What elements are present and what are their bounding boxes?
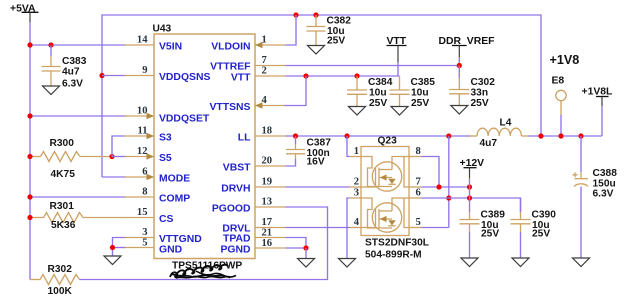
pin 6 MODE input arrow (125, 167, 191, 185)
svg-text:25V: 25V (532, 229, 550, 240)
ground below C385 (391, 107, 408, 116)
svg-text:C384: C384 (368, 77, 393, 88)
svg-text:L4: L4 (500, 118, 512, 129)
Q23 bottom FET internals (361, 198, 409, 232)
svg-text:VLDOIN: VLDOIN (211, 42, 250, 53)
wire pin10 VDDQSET from +5VA rail (30, 115, 126, 117)
svg-text:4K75: 4K75 (51, 169, 76, 180)
junction Q23 pin1 drop on LL (344, 133, 349, 138)
capacitor C384 10u 25V (347, 76, 393, 109)
svg-text:25V: 25V (411, 98, 429, 109)
wire S3 riser (112, 136, 126, 157)
svg-text:C383: C383 (62, 56, 87, 67)
Q23 pin 6 stub (409, 188, 422, 199)
wire LL net / +1V8 output (286, 135, 471, 137)
pin 13 PGOOD (212, 197, 286, 215)
svg-text:19: 19 (262, 177, 273, 188)
resistor R300 4K75 (30, 138, 112, 180)
resistor R301 5K36 (30, 201, 126, 231)
svg-text:5K36: 5K36 (51, 220, 76, 231)
junction +5VA/pin14 (27, 42, 32, 47)
pin 12 S5 input arrow (125, 146, 172, 164)
wire Q23 pin5 riser (422, 227, 449, 229)
svg-text:10u: 10u (369, 88, 387, 99)
node +12V power label (460, 158, 485, 212)
svg-text:100K: 100K (48, 286, 73, 297)
capacitor C302 33n 25V (449, 66, 495, 110)
resistor R302 100K (30, 264, 80, 297)
svg-text:10: 10 (137, 106, 148, 117)
ground U43 analog (104, 256, 121, 265)
pin 20 VBST (223, 156, 286, 174)
wire LL to Q23 pin1 (347, 136, 350, 157)
svg-text:6.3V: 6.3V (593, 189, 614, 200)
junction top rail drop at output (538, 133, 543, 138)
wire MODE from rail vertical (102, 176, 126, 178)
svg-text:C390: C390 (532, 210, 557, 221)
svg-text:C302: C302 (471, 77, 496, 88)
pin 2 VTT (231, 66, 286, 84)
junction E8 on output (558, 133, 563, 138)
ground PGND (298, 259, 315, 268)
svg-text:4: 4 (354, 217, 360, 228)
wire rail to pin9 (102, 75, 126, 77)
wire Q23 pin3 source to ground (347, 198, 350, 258)
svg-text:C389: C389 (481, 210, 506, 221)
wire Q23 pin7 to +12V (422, 186, 470, 188)
Q23 pin 3 stub (350, 188, 362, 199)
wire DRVH to Q23 gate pin2 (286, 186, 350, 188)
pin 18 LL (238, 126, 286, 144)
svg-text:13: 13 (262, 197, 273, 208)
svg-text:R300: R300 (50, 138, 75, 149)
svg-text:7: 7 (262, 55, 268, 66)
svg-text:R302: R302 (48, 264, 73, 275)
svg-text:VBST: VBST (223, 163, 251, 174)
svg-text:6: 6 (416, 188, 421, 199)
ground below C384 (349, 107, 366, 116)
svg-text:5: 5 (142, 238, 147, 249)
junction pin8 drop (436, 184, 441, 189)
IC U43 TPS51116PWP body (153, 24, 256, 272)
ground below C390 (512, 258, 529, 267)
svg-text:C385: C385 (411, 77, 436, 88)
wire VTT net pin2 (286, 75, 400, 77)
wire top rail to pin1 VLDOIN (285, 15, 297, 45)
svg-text:9: 9 (142, 65, 147, 76)
Q23 pin 7 stub (409, 177, 422, 188)
ground below C389 (461, 258, 478, 267)
svg-text:4u7: 4u7 (62, 67, 80, 78)
pin 4 VTTSNS input arrow (210, 95, 286, 113)
capacitor C390 10u 25V (511, 198, 557, 258)
junction +12V on pin7 row (467, 184, 472, 189)
svg-text:VDDQSNS: VDDQSNS (159, 72, 210, 83)
junction R301/+5VA (27, 215, 32, 220)
junction R300/S5/S3 (109, 154, 114, 159)
svg-text:TPAD: TPAD (223, 234, 251, 245)
wire Q23 pin6 row to C390 (422, 198, 521, 212)
svg-text:14: 14 (137, 35, 148, 46)
svg-text:2: 2 (354, 177, 359, 188)
capacitor C388 150u 6.3V polarized (573, 136, 618, 258)
svg-text:C388: C388 (593, 168, 618, 179)
svg-text:S3: S3 (159, 133, 172, 144)
pin 15 CS (125, 207, 174, 225)
ground below C302 (451, 106, 468, 115)
svg-text:6.3V: 6.3V (62, 79, 83, 90)
Q23 pin 8 stub (409, 146, 422, 157)
junction C387 on LL (293, 133, 298, 138)
svg-text:C387: C387 (307, 138, 332, 149)
pin 16 PGND (220, 238, 285, 256)
transistor Q23 dual MOSFET STS2DNF30L (361, 136, 429, 261)
node DDR_VREF label (439, 36, 495, 66)
junction C382 on top rail (313, 12, 318, 17)
svg-text:4: 4 (262, 95, 268, 106)
svg-text:PGND: PGND (220, 245, 251, 256)
svg-text:33n: 33n (471, 88, 489, 99)
svg-text:U43: U43 (153, 24, 172, 35)
svg-text:17: 17 (262, 217, 273, 228)
junction LL drop to low FET drain row (446, 133, 451, 138)
svg-text:25V: 25V (481, 229, 499, 240)
pin 14 V5IN (125, 35, 183, 53)
capacitor C383 4u7 6.3V (42, 45, 87, 90)
junction VTT/VTTSNS (303, 73, 308, 78)
svg-text:3: 3 (142, 227, 147, 238)
capacitor C382 10u 25V (307, 15, 352, 47)
wire VTTREF net pin7 to C302/DDR_VREF (286, 65, 460, 67)
pin 5 GND (125, 238, 183, 256)
wire TPAD/PGND to ground (286, 238, 307, 249)
wire R300 to pin12 S5 (112, 156, 126, 158)
capacitor C385 10u 25V (390, 76, 436, 109)
ground Q23 source (339, 259, 356, 268)
junction TPAD/PGND (303, 245, 308, 250)
pin 17 DRVL (222, 217, 285, 235)
svg-text:20: 20 (262, 156, 273, 167)
Q23 pin 5 stub (409, 217, 422, 228)
svg-text:18: 18 (262, 126, 273, 137)
svg-text:CS: CS (159, 214, 174, 225)
svg-text:VDDQSET: VDDQSET (159, 114, 210, 125)
svg-text:VTTSNS: VTTSNS (210, 102, 251, 113)
svg-text:12: 12 (137, 146, 148, 157)
svg-text:8: 8 (142, 187, 147, 198)
svg-text:LL: LL (238, 133, 251, 144)
svg-text:25V: 25V (327, 36, 345, 47)
wire VLDOIN top rail (102, 15, 541, 177)
svg-text:+1V8: +1V8 (550, 53, 580, 67)
wire +5VA vertical rail left (29, 22, 31, 280)
svg-text:8: 8 (416, 146, 421, 157)
capacitor C387 100n 16V bootstrap (286, 136, 332, 168)
wire VTTGND/GND to ground (113, 238, 126, 257)
svg-text:3: 3 (354, 188, 359, 199)
svg-text:15: 15 (137, 207, 148, 218)
svg-text:10u: 10u (411, 88, 429, 99)
junction R300/+5VA (27, 154, 32, 159)
pin 7 VTTREF (210, 55, 285, 73)
svg-text:COMP: COMP (159, 194, 190, 205)
svg-text:STS2DNF30L: STS2DNF30L (365, 238, 429, 249)
pin 3 VTTGND (125, 227, 203, 245)
junction +12V vertical on row36 (467, 195, 472, 200)
Q23 pin 1 stub (350, 146, 362, 157)
svg-text:11: 11 (137, 126, 147, 137)
svg-text:1: 1 (262, 35, 267, 46)
wire LL drop x=448.8 (448, 136, 450, 228)
svg-text:V5IN: V5IN (159, 42, 182, 53)
svg-text:25V: 25V (369, 98, 387, 109)
node +5VA power label (10, 4, 39, 23)
svg-text:7: 7 (416, 177, 422, 188)
wire Q23 pin8 to +12V row (422, 157, 440, 188)
svg-text:2: 2 (262, 66, 267, 77)
wire R302 to PGOOD riser (80, 207, 328, 280)
junction COMP/+5VA (27, 194, 32, 199)
svg-text:GND: GND (159, 245, 183, 256)
ground below C382 (308, 46, 325, 55)
junction pin9 VDDQSNS on rail vertical (99, 73, 104, 78)
ground below C383 (43, 86, 60, 95)
ground below C388 (573, 258, 590, 267)
pin 9 VDDQSNS (125, 65, 211, 83)
svg-text:VTTREF: VTTREF (210, 62, 250, 73)
svg-text:21: 21 (262, 228, 273, 239)
wire +5VA to pin14 V5IN (30, 44, 126, 46)
node +1V8L label (582, 87, 614, 137)
wire PGND stub down (305, 248, 307, 258)
svg-text:VTTGND: VTTGND (159, 234, 202, 245)
test point E8 (552, 76, 567, 137)
pin 8 COMP (125, 187, 191, 205)
svg-text:4u7: 4u7 (480, 138, 498, 149)
svg-text:VTT: VTT (231, 73, 251, 84)
junction drop/row36 (446, 195, 451, 200)
redacted part number scribble (170, 265, 236, 278)
svg-text:DRVH: DRVH (221, 184, 250, 195)
svg-text:C382: C382 (327, 16, 352, 27)
svg-text:16: 16 (262, 238, 273, 249)
svg-text:MODE: MODE (159, 174, 190, 185)
svg-text:16V: 16V (307, 157, 325, 168)
pin 11 S3 input arrow (125, 126, 172, 144)
svg-text:Q23: Q23 (378, 136, 398, 147)
Q23 top FET internals (361, 157, 409, 192)
svg-text:25V: 25V (471, 98, 489, 109)
wire VTTSNS loop (285, 76, 307, 106)
junction pin3/pin5 gnd (110, 245, 115, 250)
inductor L4 4u7 (470, 118, 529, 150)
junction DDR_VREF/C302 (457, 63, 462, 68)
junction C384 on VTT (354, 73, 359, 78)
junction pin10/+5VA (27, 113, 32, 118)
svg-text:E8: E8 (552, 76, 565, 87)
pin 19 DRVH (221, 177, 285, 195)
svg-text:5: 5 (416, 217, 421, 228)
svg-text:PGOOD: PGOOD (212, 204, 251, 215)
capacitor C389 10u 25V (460, 210, 506, 258)
pin 10 VDDQSET input arrow (125, 106, 210, 125)
pin 1 VLDOIN input arrow (211, 35, 285, 53)
Q23 pin 4 stub gate (350, 217, 362, 228)
node VTT power label (387, 36, 407, 76)
wire DRVL to Q23 gate pin4 (286, 227, 350, 229)
svg-text:6: 6 (142, 167, 147, 178)
wire output after L4 (529, 135, 603, 137)
svg-text:1: 1 (354, 146, 359, 157)
svg-text:504-899R-M: 504-899R-M (365, 250, 422, 261)
junction C388 on output (578, 133, 583, 138)
Q23 pin 2 stub gate (350, 177, 362, 188)
svg-text:R301: R301 (50, 201, 75, 212)
junction C383 tap (48, 42, 53, 47)
svg-text:S5: S5 (159, 153, 172, 164)
wire GND pin5 (113, 247, 126, 249)
pin 21 TPAD (223, 228, 286, 245)
svg-text:DDR_VREF: DDR_VREF (439, 36, 495, 47)
wire COMP from +5VA rail (30, 196, 126, 198)
junction pin1 drop on top rail (293, 12, 298, 17)
